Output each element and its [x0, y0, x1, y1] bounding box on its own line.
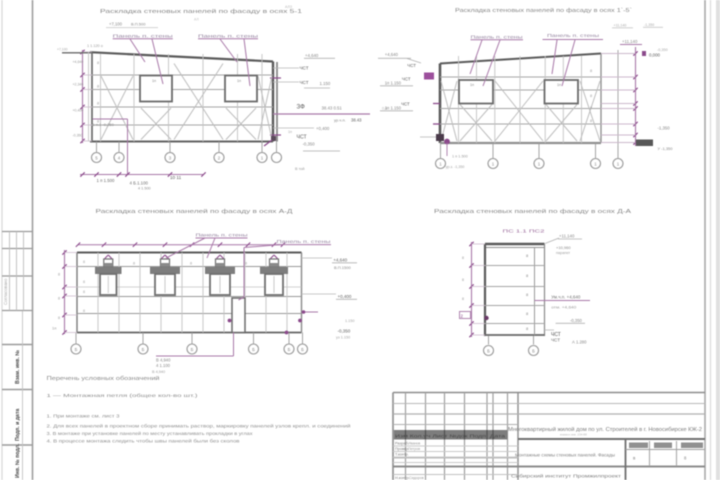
svg-text:Б: Б — [301, 347, 304, 352]
svg-text:+2,340: +2,340 — [73, 83, 84, 87]
svg-text:АЛ: АЛ — [194, 18, 199, 22]
svg-text:ЧСТ: ЧСТ — [300, 66, 309, 71]
svg-text:1 п 1.500: 1 п 1.500 — [452, 155, 468, 159]
svg-text:8: 8 — [462, 297, 464, 301]
svg-text:1. При монтаже см. лист 3: 1. При монтаже см. лист 3 — [47, 414, 121, 419]
svg-text:+0,400: +0,400 — [73, 109, 84, 113]
svg-text:Перечень условных обозначений: Перечень условных обозначений — [47, 375, 160, 382]
svg-text:-0,350: -0,350 — [570, 318, 583, 323]
svg-text:Раскладка стеновых панелей по: Раскладка стеновых панелей по фасаду в о… — [96, 208, 294, 215]
svg-text:У -1,350: У -1,350 — [658, 146, 674, 151]
svg-text:1п: 1п — [152, 79, 156, 83]
svg-text:А 1.280: А 1.280 — [572, 340, 587, 345]
svg-text:ЧСТ: ЧСТ — [407, 63, 416, 68]
svg-text:1п: 1п — [288, 130, 292, 134]
svg-text:-0,350: -0,350 — [657, 48, 668, 52]
svg-text:Б: Б — [532, 349, 535, 354]
svg-text:8: 8 — [58, 316, 60, 320]
svg-text:8: 8 — [590, 119, 592, 123]
svg-text:В той: В той — [295, 167, 305, 171]
svg-text:+11,140: +11,140 — [622, 39, 638, 44]
svg-text:38.43 0.51: 38.43 0.51 — [322, 106, 343, 111]
svg-text:1.150: 1.150 — [345, 319, 355, 323]
svg-text:1 п.1 -0,350: 1 п.1 -0,350 — [93, 122, 115, 127]
svg-text:8: 8 — [245, 262, 247, 266]
svg-text:+11,140: +11,140 — [614, 24, 627, 28]
svg-text:-1,350: -1,350 — [644, 23, 654, 27]
svg-text:Монтажные схемы стеновых панел: Монтажные схемы стеновых панелей. Фасады — [515, 452, 615, 458]
svg-text:38.43: 38.43 — [351, 118, 362, 123]
svg-text:Сибирский институт Промжилпрое: Сибирский институт Промжилпроект — [511, 474, 621, 479]
svg-text:Раскладка стеновых панелей по: Раскладка стеновых панелей по фасаду в о… — [100, 8, 302, 15]
svg-text:Петров: Петров — [408, 447, 420, 451]
svg-text:Панель п. стены: Панель п. стены — [471, 34, 523, 39]
svg-text:+4,640: +4,640 — [305, 53, 319, 58]
svg-text:Б: Б — [75, 347, 78, 352]
svg-text:уз 1.150: уз 1.150 — [336, 336, 350, 340]
svg-text:1п: 1п — [470, 83, 474, 87]
svg-text:-0,350: -0,350 — [303, 142, 316, 147]
svg-text:8: 8 — [58, 297, 60, 301]
svg-text:8: 8 — [97, 102, 99, 106]
svg-text:Б: Б — [252, 347, 255, 352]
svg-text:2. Для всех панелей в проектно: 2. Для всех панелей в проектном сборе пр… — [47, 424, 352, 429]
svg-text:1п: 1п — [237, 79, 241, 83]
svg-text:АЛЗ: АЛЗ — [285, 5, 292, 9]
svg-text:8: 8 — [83, 309, 85, 313]
svg-text:Н.контр.: Н.контр. — [395, 476, 410, 480]
svg-text:8: 8 — [590, 106, 592, 110]
svg-text:+4,640: +4,640 — [333, 258, 347, 263]
svg-text:8: 8 — [58, 273, 60, 277]
svg-text:1п 1.150: 1п 1.150 — [385, 81, 402, 86]
svg-text:8: 8 — [190, 262, 192, 266]
svg-text:Разраб.: Разраб. — [395, 442, 409, 446]
svg-text:ур.ч.п.: ур.ч.п. — [334, 118, 346, 123]
svg-text:1п 1.150: 1п 1.150 — [385, 106, 402, 111]
svg-text:ЧСТ: ЧСТ — [297, 135, 308, 141]
svg-text:8: 8 — [83, 280, 85, 284]
svg-text:ЧСТ: ЧСТ — [401, 101, 410, 106]
svg-text:8: 8 — [133, 262, 135, 266]
svg-text:4. В процессе монтажа следить: 4. В процессе монтажа следить чтобы швы … — [47, 439, 241, 444]
svg-text:парапет: парапет — [556, 251, 570, 255]
svg-text:-0,350: -0,350 — [73, 134, 83, 138]
svg-text:+7,100: +7,100 — [109, 22, 123, 27]
svg-text:4 1.500: 4 1.500 — [138, 187, 151, 191]
svg-text:Панель п. стены: Панель п. стены — [113, 33, 173, 38]
svg-text:В.П.500: В.П.500 — [131, 22, 146, 27]
svg-text:1 1.120 о: 1 1.120 о — [87, 44, 103, 48]
svg-text:ур.з. -1,350: ур.з. -1,350 — [446, 165, 465, 169]
svg-text:8: 8 — [97, 85, 99, 89]
svg-text:Б: Б — [487, 349, 490, 354]
svg-text:8: 8 — [83, 290, 85, 294]
svg-text:8: 8 — [590, 69, 592, 73]
svg-text:Раскладка стеновых панелей по: Раскладка стеновых панелей по фасаду в о… — [455, 7, 632, 14]
svg-text:+4,640: +4,640 — [73, 60, 84, 64]
svg-text:1.150: 1.150 — [320, 81, 331, 86]
svg-text:Панель п. стены: Панель п. стены — [198, 33, 258, 38]
svg-text:Раскладка стеновых панелей по: Раскладка стеновых панелей по фасаду в о… — [434, 208, 632, 215]
svg-text:ЧСТ: ЧСТ — [551, 338, 560, 343]
svg-text:10 11: 10 11 — [170, 175, 182, 180]
svg-text:8: 8 — [97, 61, 99, 65]
svg-text:ЧСТ: ЧСТ — [300, 80, 309, 85]
svg-text:4 Б.1.100: 4 Б.1.100 — [130, 181, 149, 186]
svg-text:Подп. и дата: Подп. и дата — [15, 409, 21, 441]
svg-text:Б: Б — [191, 347, 194, 352]
svg-text:+0,400: +0,400 — [316, 126, 330, 131]
svg-text:Взам. инв. №: Взам. инв. № — [15, 350, 21, 384]
svg-text:Иванов: Иванов — [408, 442, 420, 446]
svg-text:В 4,940: В 4,940 — [152, 370, 165, 374]
svg-text:8: 8 — [462, 278, 464, 282]
svg-text:1 — Монтажная петля (общее кол: 1 — Монтажная петля (общее кол-во шт.) — [47, 393, 199, 399]
svg-text:Многоквартирный жилой дом по у: Многоквартирный жилой дом по ул. Строите… — [508, 426, 702, 433]
svg-text:В.П.1500: В.П.1500 — [334, 265, 351, 270]
svg-text:ЧСТ: ЧСТ — [402, 76, 411, 81]
svg-text:Панель п. стены: Панель п. стены — [196, 233, 248, 238]
svg-text:+0,400: +0,400 — [338, 294, 352, 299]
svg-text:Панель п. стены: Панель п. стены — [547, 33, 599, 38]
svg-text:1п: 1п — [52, 326, 56, 331]
svg-text:Б: Б — [142, 347, 145, 352]
svg-text:+10,960: +10,960 — [556, 245, 571, 250]
svg-text:+7,100: +7,100 — [57, 48, 68, 52]
svg-text:1п: 1п — [557, 83, 561, 87]
svg-text:+4,640: +4,640 — [385, 52, 399, 57]
svg-text:Т.контр.: Т.контр. — [395, 453, 409, 457]
svg-text:1 п 1.500: 1 п 1.500 — [97, 178, 115, 183]
svg-text:8: 8 — [590, 94, 592, 98]
svg-text:Изм Кол.уч Лист №док Подп. Дат: Изм Кол.уч Лист №док Подп. Дата — [395, 433, 506, 438]
svg-text:8: 8 — [462, 256, 464, 260]
svg-text:4 1.100: 4 1.100 — [156, 363, 171, 368]
svg-text:Ум.ч.п. +4,640: Ум.ч.п. +4,640 — [551, 295, 581, 300]
svg-text:-0,350: -0,350 — [338, 329, 351, 334]
svg-text:Б: Б — [288, 347, 291, 352]
svg-text:ПС 1.1 ПС2: ПС 1.1 ПС2 — [503, 228, 546, 233]
svg-text:ЗФ: ЗФ — [297, 103, 306, 110]
svg-text:Сидоров: Сидоров — [409, 476, 424, 480]
svg-text:Инв. № подл.: Инв. № подл. — [15, 443, 21, 478]
svg-text:Согласовано: Согласовано — [3, 278, 8, 305]
svg-text:взамен инв. 234-88: взамен инв. 234-88 — [560, 433, 587, 437]
svg-text:В 4,940: В 4,940 — [156, 358, 171, 363]
svg-text:0,000: 0,000 — [649, 53, 661, 58]
svg-text:+11,140: +11,140 — [559, 234, 575, 239]
svg-text:-1,350: -1,350 — [658, 126, 671, 131]
svg-text:3. В монтаже при установке пан: 3. В монтаже при установке панелей по ме… — [47, 431, 254, 436]
svg-text:8: 8 — [83, 260, 85, 264]
svg-text:отм. +4,640: отм. +4,640 — [551, 305, 577, 310]
svg-text:Панель п. стены: Панель п. стены — [277, 239, 331, 244]
